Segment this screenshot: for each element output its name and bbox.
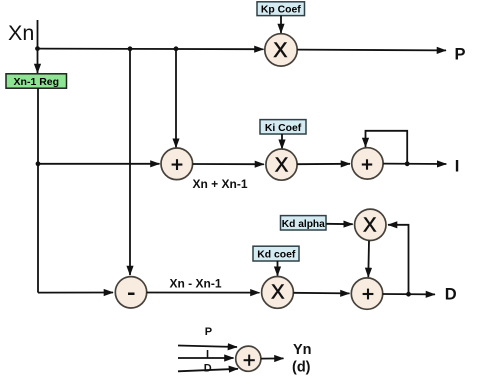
coefficient box Kd alpha — [281, 216, 327, 230]
svg-text:X: X — [363, 215, 376, 237]
wire left bus into adder A1 — [38, 163, 160, 165]
wire M3 to adder A3 — [293, 292, 349, 295]
adder A4 (output summer) — [236, 346, 261, 371]
wire Yn output — [261, 357, 284, 359]
multiplier M4 (Kd alpha) — [355, 209, 386, 240]
wire M2 to accumulator A2 — [297, 163, 350, 165]
wire Ki Coef into multiplier M2 — [281, 134, 283, 149]
wire I output — [383, 163, 446, 165]
multiplier M1 (proportional) — [265, 34, 297, 66]
wire I into output summer — [178, 357, 234, 359]
svg-text:Xn + Xn-1: Xn + Xn-1 — [192, 177, 247, 191]
wire top horizontal bus into multiplier M1 — [38, 48, 264, 51]
svg-text:D: D — [204, 363, 212, 375]
svg-text:Kp Coef: Kp Coef — [261, 5, 301, 16]
wire Kd coef into multiplier M3 — [277, 261, 279, 276]
wire vertical into adder A1 from top bus — [175, 49, 177, 148]
wire left vertical bus below register — [37, 88, 39, 292]
coefficient box Kd coef — [253, 246, 299, 261]
node junction on D output — [406, 292, 411, 297]
wire Xn input vertical drop — [37, 20, 39, 49]
svg-text:Xn - Xn-1: Xn - Xn-1 — [169, 276, 221, 290]
multiplier M3 (derivative) — [262, 277, 294, 309]
adder A1 (Xn + Xn-1) — [161, 148, 193, 180]
wire adder A1 to multiplier M2 — [193, 163, 264, 165]
wire Kp Coef into multiplier M1 — [280, 16, 282, 33]
svg-text:Xn-1 Reg: Xn-1 Reg — [14, 76, 60, 88]
svg-text:I: I — [455, 158, 460, 176]
svg-text:D: D — [445, 286, 457, 304]
adder A3 (derivative filter sum) — [351, 278, 382, 309]
svg-text:Ki Coef: Ki Coef — [265, 123, 302, 134]
node junction feeding subtractor branch — [128, 46, 133, 51]
svg-text:Kd coef: Kd coef — [257, 250, 296, 261]
wire D output — [383, 293, 435, 295]
adder A2 (integrator accumulator) — [352, 148, 383, 179]
svg-text:Yn: Yn — [293, 342, 312, 358]
wire derivative feedback up into M4 — [388, 225, 409, 294]
coefficient box Ki Coef — [260, 120, 306, 134]
svg-text:P: P — [205, 326, 212, 338]
wire M4 down into adder A3 — [367, 241, 370, 277]
svg-text:Xn: Xn — [8, 21, 34, 45]
wire D into output summer — [178, 369, 238, 372]
svg-text:(d): (d) — [292, 360, 311, 376]
node junction on I output — [405, 161, 410, 166]
node junction feeding adder A1 branch — [174, 46, 179, 51]
svg-text:X: X — [275, 155, 288, 177]
wire arrow into Xn-1 register — [37, 49, 39, 73]
wire Kd alpha into M4 — [326, 223, 352, 225]
coefficient box Kp Coef — [257, 2, 305, 16]
node junction on left bus to adder A1 — [36, 161, 41, 166]
wire vertical into subtractor from top bus — [129, 49, 131, 275]
wire P into output summer — [178, 346, 237, 348]
svg-text:P: P — [455, 45, 466, 63]
wire integrator feedback loop — [366, 131, 408, 164]
svg-text:X: X — [271, 281, 284, 303]
multiplier M2 (integral) — [266, 149, 297, 180]
register Xn-1 Reg — [6, 74, 67, 88]
svg-text:Kd alpha: Kd alpha — [282, 219, 325, 230]
wire subtractor to multiplier M3 — [147, 292, 260, 294]
wire left bus into subtractor — [38, 292, 113, 294]
node junction at Xn column — [35, 46, 40, 51]
subtractor S1 (Xn - Xn-1) — [115, 277, 146, 308]
svg-text:X: X — [273, 39, 287, 62]
wire P output — [297, 49, 446, 52]
